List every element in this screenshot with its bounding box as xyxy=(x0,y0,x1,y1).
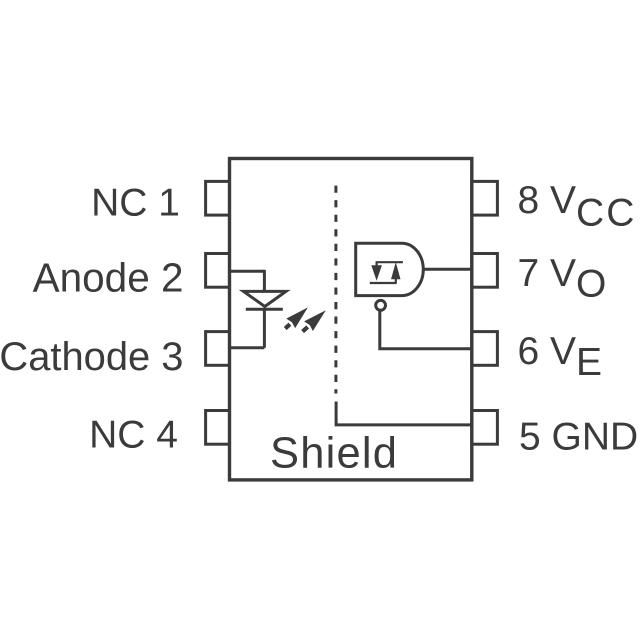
photodiode left stub xyxy=(376,262,378,266)
shield dashed line xyxy=(334,186,337,394)
pin 8 pad xyxy=(472,181,498,215)
photodiode up triangle xyxy=(391,262,401,279)
light emission arrow 1 xyxy=(281,303,313,334)
LED D1 cathode bar xyxy=(246,308,283,311)
pin 7 pad xyxy=(472,254,498,288)
pin 1 pad xyxy=(206,181,230,215)
wire LED cathode vertical xyxy=(263,309,266,348)
pin 5 pad xyxy=(472,411,498,445)
photodiode right stub xyxy=(395,279,397,284)
photodiode top rail xyxy=(376,261,403,263)
photodiode symbol inside gate xyxy=(370,262,403,283)
IC package body U1 xyxy=(230,159,472,480)
photodiode bottom rail xyxy=(370,282,397,284)
wire cathode pin3 to LED xyxy=(230,346,265,349)
base circle node xyxy=(376,300,386,310)
wire anode pin2 to LED xyxy=(230,270,265,273)
pin 4 pad xyxy=(206,411,230,445)
detector gate U2 outline xyxy=(356,243,424,295)
svg-text:NC 1: NC 1 xyxy=(91,182,180,225)
wire VE pin6 xyxy=(380,310,472,349)
photodiode down arrow xyxy=(371,265,382,281)
light emission arrow 2 xyxy=(298,306,330,337)
svg-text:5 GND: 5 GND xyxy=(519,416,638,459)
wire LED anode vertical xyxy=(263,270,266,292)
svg-text:Cathode 3: Cathode 3 xyxy=(0,335,184,379)
wire shield to GND pin5 xyxy=(336,402,472,425)
svg-text:NC 4: NC 4 xyxy=(89,414,178,457)
pin 3 pad xyxy=(206,332,230,366)
svg-text:Shield: Shield xyxy=(270,430,398,478)
pin 6 pad xyxy=(472,332,498,366)
svg-text:Anode 2: Anode 2 xyxy=(33,254,184,300)
pin 2 pad xyxy=(206,254,230,288)
LED D1 triangle xyxy=(244,291,287,306)
wire output gate to pin7 xyxy=(424,268,472,271)
